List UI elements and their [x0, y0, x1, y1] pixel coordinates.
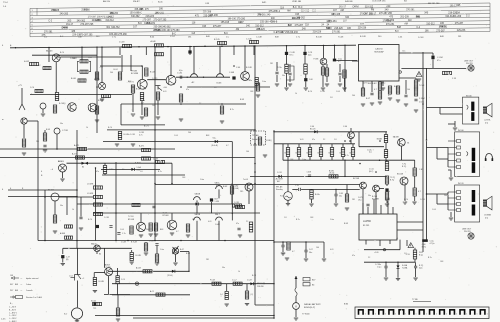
- svg-text:1: 1: [426, 314, 427, 316]
- svg-text:218-226: 218-226: [146, 16, 155, 18]
- svg-text:1.C41: 1.C41: [277, 172, 282, 174]
- svg-text:C.7u: C.7u: [295, 185, 299, 187]
- svg-text:B.Tu: B.Tu: [345, 155, 349, 157]
- svg-text:B4: B4: [82, 167, 84, 169]
- svg-text:BC548B: BC548B: [104, 267, 111, 269]
- svg-text:275-287: 275-287: [455, 23, 464, 25]
- svg-text:C48: C48: [10, 275, 13, 277]
- svg-text:(TO-B): (TO-B): [167, 275, 173, 277]
- svg-text:C.Tu: C.Tu: [122, 233, 126, 235]
- svg-text:B.C48: B.C48: [316, 37, 322, 39]
- svg-text:1.C4: 1.C4: [30, 87, 34, 89]
- svg-text:B.C48: B.C48: [150, 72, 155, 74]
- svg-text:1.8: 1.8: [140, 171, 143, 173]
- svg-text:1.8: 1.8: [404, 253, 407, 255]
- svg-text:1.018: 1.018: [307, 172, 312, 174]
- svg-text:218-226: 218-226: [313, 32, 322, 34]
- svg-text:SA10B: SA10B: [195, 192, 201, 195]
- svg-text:B B0: B B0: [344, 304, 348, 306]
- svg-text:B.C48Q: B.C48Q: [59, 103, 66, 105]
- svg-text:A.071: A.071: [74, 144, 80, 147]
- svg-text:240: 240: [444, 195, 447, 197]
- svg-text:+ 4: + 4: [51, 169, 54, 171]
- svg-text:270-287 295: 270-287 295: [153, 19, 167, 21]
- svg-text:C.04: C.04: [88, 57, 92, 59]
- svg-text:C.048: C.048: [229, 72, 234, 74]
- svg-text:+1: +1: [396, 238, 398, 240]
- svg-text:TA.7: TA.7: [277, 180, 281, 183]
- svg-text:1: 1: [385, 314, 386, 316]
- svg-text:50u: 50u: [60, 205, 63, 207]
- svg-text:C.04: C.04: [174, 135, 178, 137]
- svg-text:BT.048: BT.048: [163, 215, 169, 217]
- svg-text:1.1+7: 1.1+7: [232, 279, 237, 281]
- svg-text:TV-4: TV-4: [3, 2, 8, 4]
- svg-text:155-168: 155-168: [221, 22, 230, 24]
- svg-text:B48: B48: [326, 28, 331, 30]
- svg-text:1k: 1k: [388, 191, 390, 193]
- svg-text:B.C4B: B.C4B: [99, 281, 105, 283]
- svg-text:B.Qu: B.Qu: [419, 254, 423, 256]
- svg-text:B.048: B.048: [217, 83, 222, 85]
- svg-text:4Qu: 4Qu: [179, 70, 182, 72]
- svg-text:AM CH: AM CH: [103, 0, 110, 3]
- svg-text:240-265: 240-265: [92, 20, 101, 22]
- svg-text:B4: B4: [285, 152, 287, 154]
- svg-text:B.B4B: B.B4B: [377, 139, 383, 141]
- svg-text:240: 240: [188, 132, 191, 134]
- svg-text:B.C4B: B.C4B: [136, 255, 142, 257]
- svg-text:C.CT3: C.CT3: [152, 78, 157, 80]
- svg-text:50u: 50u: [309, 252, 312, 254]
- svg-text:VFB1 BB: VFB1 BB: [292, 1, 302, 3]
- svg-text:AM: AM: [408, 19, 412, 22]
- svg-text:1.8: 1.8: [334, 139, 337, 141]
- svg-text:B-C: B-C: [298, 7, 302, 9]
- svg-text:B1 281: B1 281: [363, 225, 370, 227]
- svg-text:C.C84: C.C84: [177, 73, 182, 75]
- svg-text:340-362: 340-362: [77, 20, 86, 22]
- svg-text:1: 1: [436, 314, 437, 316]
- svg-text:240: 240: [352, 95, 355, 97]
- svg-text:270-287 295: 270-287 295: [88, 17, 102, 19]
- svg-text:1: 1: [476, 314, 477, 316]
- svg-text:275-287: 275-287: [213, 26, 222, 28]
- svg-text:1.0m: 1.0m: [262, 81, 266, 83]
- svg-text:A.028: A.028: [136, 267, 141, 270]
- svg-text:B48: B48: [15, 284, 18, 286]
- svg-text:B4: B4: [99, 254, 101, 256]
- svg-text:1k: 1k: [86, 127, 88, 129]
- svg-text:AM: AM: [340, 9, 344, 12]
- svg-text:(TL): (TL): [358, 199, 362, 201]
- svg-text:258-280: 258-280: [257, 286, 264, 288]
- svg-text:BL103: BL103: [48, 190, 55, 192]
- svg-text:50u: 50u: [222, 267, 225, 269]
- svg-text:CS BSB: CS BSB: [484, 215, 492, 217]
- svg-text:310-312: 310-312: [105, 20, 114, 22]
- svg-text:B.Tu: B.Tu: [158, 171, 162, 173]
- svg-text:+B2: +B2: [191, 82, 194, 84]
- svg-text:4.7: 4.7: [143, 89, 146, 91]
- svg-text:L -- 281 V: L -- 281 V: [9, 318, 17, 320]
- svg-text:B-C: B-C: [224, 33, 228, 35]
- svg-text:B.C4: B.C4: [252, 275, 256, 277]
- svg-text:B48: B48: [128, 81, 131, 83]
- svg-text:4.062: 4.062: [24, 61, 30, 63]
- svg-text:C48: C48: [250, 91, 253, 93]
- svg-text:201-209: 201-209: [453, 16, 462, 18]
- svg-text:1.C: 1.C: [226, 36, 230, 38]
- svg-text:(C): (C): [251, 294, 254, 296]
- svg-text:275-287: 275-287: [269, 11, 278, 13]
- svg-text:310-312: 310-312: [365, 6, 374, 8]
- svg-text:COLOUR 281: COLOUR 281: [372, 1, 386, 3]
- svg-text:1.Tu: 1.Tu: [296, 37, 300, 39]
- svg-text:C48: C48: [310, 217, 313, 219]
- svg-text:BL103: BL103: [46, 51, 53, 53]
- svg-text:0.01: 0.01: [208, 221, 212, 223]
- svg-text:AM: AM: [238, 21, 242, 24]
- svg-text:1.C47: 1.C47: [247, 279, 252, 281]
- svg-text:SA10B: SA10B: [195, 213, 201, 216]
- svg-text:1.8: 1.8: [214, 87, 217, 89]
- svg-text:4.7: 4.7: [388, 95, 391, 97]
- svg-text:AM: AM: [404, 23, 408, 26]
- svg-text:1.C48: 1.C48: [320, 91, 325, 93]
- svg-text:C.C48: C.C48: [256, 37, 263, 39]
- svg-text:RADIO(B): RADIO(B): [257, 282, 265, 285]
- svg-text:1.18M: 1.18M: [419, 98, 425, 100]
- svg-text:155-168: 155-168: [332, 14, 341, 16]
- svg-text:P.C18: P.C18: [210, 279, 215, 281]
- svg-text:1-door: 1-door: [26, 284, 32, 286]
- svg-text:B.C: B.C: [60, 36, 64, 38]
- svg-text:4.7u: 4.7u: [139, 134, 143, 136]
- svg-text:1.C48: 1.C48: [153, 159, 158, 161]
- svg-text:1k: 1k: [72, 209, 74, 211]
- svg-text:186-190 275-280: 186-190 275-280: [162, 30, 180, 32]
- svg-text:100: 100: [407, 89, 410, 91]
- svg-text:FM-BT: FM-BT: [133, 1, 140, 3]
- svg-text:1: 1: [375, 314, 376, 316]
- svg-text:(C): (C): [369, 152, 372, 154]
- svg-text:B.C48Q: B.C48Q: [266, 140, 273, 142]
- svg-text:1.4m: 1.4m: [1, 319, 6, 321]
- svg-text:B4: B4: [307, 152, 309, 154]
- svg-text:B.C48: B.C48: [246, 67, 252, 69]
- svg-text:BC1.8: BC1.8: [310, 128, 315, 130]
- svg-text:SU.02: SU.02: [91, 300, 96, 302]
- svg-text:B4: B4: [340, 152, 342, 154]
- svg-text:BC148B: BC148B: [131, 73, 139, 75]
- svg-text:1-8 BTL: 1-8 BTL: [484, 120, 491, 122]
- svg-text:1 -- 281 V: 1 -- 281 V: [9, 315, 17, 317]
- svg-text:BT.048: BT.048: [128, 219, 134, 221]
- svg-text:C.04: C.04: [432, 209, 436, 211]
- svg-text:C.04: C.04: [343, 126, 347, 128]
- svg-text:TP1.AS: TP1.AS: [252, 134, 259, 137]
- svg-text:LA4550: LA4550: [363, 220, 372, 223]
- svg-text:1.08: 1.08: [309, 79, 313, 81]
- svg-text:K47: K47: [10, 284, 13, 286]
- svg-text:1.C4: 1.C4: [69, 276, 73, 278]
- svg-text:161-17: 161-17: [66, 24, 74, 26]
- svg-text:4.7: 4.7: [292, 251, 295, 253]
- svg-text:281: 281: [270, 63, 273, 65]
- svg-text:4.7: 4.7: [226, 145, 229, 147]
- svg-text:B.046: B.046: [71, 78, 76, 80]
- svg-text:B-47: B-47: [180, 249, 184, 251]
- svg-text:BC548: BC548: [397, 174, 404, 176]
- svg-text:1.C48: 1.C48: [130, 134, 135, 136]
- svg-text:1.C48: 1.C48: [418, 37, 424, 39]
- svg-text:H.1: H.1: [280, 196, 283, 198]
- svg-text:C -- B4 V: C -- B4 V: [9, 307, 17, 309]
- svg-text:1k: 1k: [295, 93, 297, 95]
- svg-text:1: 1: [395, 314, 396, 316]
- svg-text:1: 1: [446, 314, 447, 316]
- svg-text:1.C48: 1.C48: [104, 217, 109, 219]
- svg-text:C48: C48: [440, 261, 443, 263]
- svg-text:270-281: 270-281: [44, 31, 53, 33]
- svg-text:201-209: 201-209: [146, 23, 155, 25]
- svg-text:B.C48: B.C48: [360, 36, 366, 38]
- svg-text:161-17: 161-17: [369, 13, 377, 15]
- svg-text:C.C84: C.C84: [437, 57, 444, 59]
- svg-text:C.Qu: C.Qu: [377, 266, 381, 268]
- svg-text:B.C4P: B.C4P: [136, 89, 142, 91]
- svg-text:Tu1.1: Tu1.1: [163, 212, 168, 214]
- svg-text:A.C1: A.C1: [150, 290, 154, 293]
- svg-text:(B.C): (B.C): [369, 171, 374, 173]
- svg-text:B48: B48: [160, 229, 163, 231]
- svg-text:B4: B4: [296, 152, 298, 154]
- svg-text:1.C4: 1.C4: [121, 279, 125, 281]
- svg-text:B.7Q: B.7Q: [402, 166, 407, 168]
- svg-text:B.EX: B.EX: [223, 186, 228, 188]
- svg-text:B48: B48: [282, 253, 285, 255]
- svg-text:bipolar external: bipolar external: [26, 277, 39, 280]
- svg-text:281: 281: [240, 191, 243, 193]
- svg-text:0.01: 0.01: [330, 249, 334, 251]
- svg-text:1: 1: [405, 314, 406, 316]
- svg-text:1.C48: 1.C48: [234, 202, 239, 204]
- svg-text:50u: 50u: [339, 195, 342, 197]
- svg-text:C48: C48: [290, 159, 293, 161]
- svg-text:1.C48: 1.C48: [420, 199, 425, 201]
- svg-text:4.7: 4.7: [338, 61, 341, 63]
- svg-text:B4: B4: [329, 152, 331, 154]
- svg-text:229-236: 229-236: [457, 30, 466, 32]
- svg-text:1.C48: 1.C48: [149, 241, 154, 243]
- svg-text:LO.098: LO.098: [87, 184, 93, 186]
- svg-text:1.Tu: 1.Tu: [112, 37, 116, 39]
- svg-text:4Qu: 4Qu: [308, 54, 311, 56]
- svg-text:P.C8u: P.C8u: [277, 67, 282, 69]
- svg-text:S-4+: S-4+: [213, 138, 217, 140]
- svg-text:310-312: 310-312: [426, 23, 435, 25]
- svg-text:186-190 275-280: 186-190 275-280: [228, 19, 246, 21]
- svg-text:1.C48: 1.C48: [121, 242, 126, 244]
- svg-text:A.048: A.048: [151, 40, 156, 43]
- svg-text:B.C4: B.C4: [404, 199, 408, 201]
- svg-text:IN 180: IN 180: [458, 130, 464, 132]
- svg-text:235-286: 235-286: [203, 15, 212, 17]
- svg-text:275-287: 275-287: [436, 30, 445, 32]
- svg-text:TA7061AP: TA7061AP: [374, 50, 384, 53]
- svg-text:50u: 50u: [60, 123, 63, 125]
- svg-text:47u: 47u: [236, 223, 239, 225]
- svg-text:B.EX: B.EX: [372, 83, 377, 85]
- svg-text:1-month: 1-month: [26, 289, 33, 292]
- svg-text:281: 281: [352, 199, 355, 201]
- svg-text:1.0m: 1.0m: [302, 159, 306, 161]
- svg-text:PH 281: PH 281: [464, 231, 472, 233]
- svg-text:310-312: 310-312: [255, 25, 264, 27]
- svg-text:100: 100: [152, 105, 155, 107]
- svg-text:218-226: 218-226: [256, 29, 265, 31]
- svg-text:T.C48: T.C48: [419, 85, 425, 87]
- svg-text:B-41: B-41: [158, 1, 163, 3]
- svg-text:AM: AM: [287, 10, 291, 13]
- svg-text:281: 281: [206, 259, 209, 261]
- svg-text:47u: 47u: [352, 255, 355, 257]
- svg-text:340-362: 340-362: [162, 26, 171, 28]
- svg-text:0.01: 0.01: [163, 91, 167, 93]
- svg-text:LA1150: LA1150: [375, 48, 383, 51]
- svg-text:V: V: [295, 305, 297, 309]
- svg-text:A.071: A.071: [139, 145, 145, 148]
- svg-text:BC148: BC148: [353, 178, 360, 180]
- svg-text:B-C: B-C: [288, 25, 292, 27]
- svg-text:(B): (B): [66, 259, 69, 261]
- svg-text:218-226: 218-226: [334, 28, 343, 30]
- svg-text:270-281: 270-281: [257, 15, 266, 17]
- svg-text:B4: B4: [350, 152, 352, 154]
- svg-text:B.C45: B.C45: [214, 39, 220, 41]
- svg-text:FM: FM: [416, 16, 419, 18]
- svg-text:1: 1: [466, 314, 467, 316]
- svg-text:B48 BB: B48 BB: [345, 1, 353, 3]
- svg-text:1: 1: [456, 314, 457, 316]
- svg-text:B48: B48: [206, 135, 209, 137]
- svg-text:240-265: 240-265: [60, 13, 69, 15]
- svg-text:+1.09: +1.09: [374, 252, 379, 254]
- svg-text:1: 1: [416, 314, 417, 316]
- svg-text:FM: FM: [371, 10, 374, 12]
- svg-text:1.Om: 1.Om: [419, 102, 424, 104]
- svg-text:B.Tu: B.Tu: [428, 257, 432, 259]
- svg-text:FM: FM: [355, 6, 358, 8]
- svg-text:47u: 47u: [96, 171, 99, 173]
- svg-text:M-7/5: M-7/5: [363, 83, 368, 85]
- svg-text:229-236: 229-236: [358, 28, 367, 30]
- svg-text:T.C48: T.C48: [338, 37, 344, 39]
- svg-text:Standby: Standby: [276, 188, 283, 191]
- svg-text:100: 100: [246, 151, 249, 153]
- svg-text:(B.11): (B.11): [330, 173, 335, 175]
- svg-text:C.TU8: C.TU8: [62, 130, 69, 132]
- svg-text:C.04: C.04: [120, 229, 124, 231]
- svg-text:4.7: 4.7: [418, 191, 421, 193]
- svg-text:B4: B4: [312, 285, 314, 287]
- svg-text:1.0m: 1.0m: [330, 219, 334, 221]
- svg-text:P.B1u: P.B1u: [248, 80, 253, 82]
- svg-text:275-287: 275-287: [295, 25, 304, 27]
- svg-text:47u: 47u: [186, 89, 189, 91]
- svg-text:Stand by: Stand by: [252, 138, 260, 141]
- svg-text:B.C4: B.C4: [60, 52, 64, 54]
- svg-text:B -- B4 V: B -- B4 V: [9, 309, 17, 311]
- svg-text:C.04: C.04: [336, 91, 340, 93]
- svg-text:B.04: B.04: [394, 86, 398, 88]
- svg-text:270-287 295: 270-287 295: [80, 24, 94, 26]
- svg-text:155-168: 155-168: [260, 22, 269, 24]
- svg-text:254-260: 254-260: [81, 10, 90, 12]
- svg-text:281: 281: [36, 141, 39, 143]
- svg-text:4.7Qu: 4.7Qu: [430, 243, 435, 245]
- svg-text:270-281: 270-281: [332, 32, 341, 34]
- svg-text:B48: B48: [15, 290, 18, 292]
- svg-text:47u: 47u: [312, 139, 315, 141]
- svg-text:1.07: 1.07: [309, 249, 313, 251]
- svg-text:B1: B1: [407, 143, 409, 145]
- svg-text:4.7: 4.7: [141, 103, 144, 105]
- svg-text:1: 1: [365, 314, 366, 316]
- svg-text:FM: FM: [64, 28, 67, 30]
- svg-text:B.Tu: B.Tu: [296, 219, 300, 221]
- svg-text:340-362: 340-362: [131, 16, 140, 18]
- svg-text:A.CT1: A.CT1: [72, 153, 79, 156]
- svg-text:B.C4: B.C4: [308, 91, 312, 93]
- svg-text:PH 281: PH 281: [466, 63, 474, 65]
- svg-text:1-C: 1-C: [44, 36, 48, 38]
- svg-text:P47: P47: [10, 290, 13, 292]
- svg-text:AM: AM: [236, 28, 240, 31]
- svg-text:1.8: 1.8: [284, 217, 287, 219]
- svg-text:100: 100: [316, 247, 319, 249]
- svg-text:201-209: 201-209: [400, 17, 409, 19]
- svg-text:A.B48: A.B48: [60, 232, 65, 235]
- svg-text:TY BD: TY BD: [412, 299, 418, 301]
- svg-text:C48: C48: [182, 177, 185, 179]
- svg-text:TP1: TP1: [93, 308, 96, 310]
- svg-text:4Qu: 4Qu: [419, 267, 422, 269]
- svg-text:B.C4: B.C4: [108, 127, 112, 129]
- svg-text:LO.098: LO.098: [87, 193, 93, 195]
- svg-text:1k: 1k: [238, 271, 240, 273]
- svg-text:IN 120: IN 120: [458, 183, 464, 185]
- svg-text:C.EX: C.EX: [419, 169, 424, 171]
- svg-text:B4: B4: [318, 152, 320, 154]
- svg-text:B.7Q: B.7Q: [422, 246, 427, 248]
- svg-text:B48: B48: [368, 83, 371, 85]
- svg-text:240: 240: [110, 72, 113, 74]
- svg-text:TP.088: TP.088: [131, 71, 137, 73]
- svg-text:275-287: 275-287: [142, 20, 151, 22]
- svg-text:Tu.04: Tu.04: [243, 179, 248, 181]
- svg-text:1 -- BT4 V: 1 -- BT4 V: [9, 312, 18, 314]
- svg-text:SA103: SA103: [91, 243, 96, 246]
- svg-text:B48: B48: [397, 27, 402, 29]
- svg-text:1.0m: 1.0m: [160, 249, 164, 251]
- svg-text:B.C48u: B.C48u: [124, 134, 130, 136]
- svg-text:4.7: 4.7: [176, 231, 179, 233]
- svg-text:1: 1: [487, 314, 488, 316]
- svg-text:1.04B: 1.04B: [215, 224, 220, 226]
- svg-text:Tu18A: Tu18A: [402, 266, 408, 269]
